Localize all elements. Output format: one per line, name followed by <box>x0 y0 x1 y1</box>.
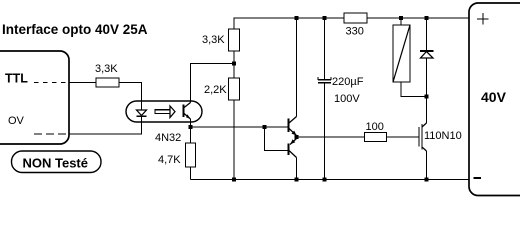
node load drain junction <box>425 95 429 99</box>
svg-text:330: 330 <box>346 26 364 38</box>
wire C1 top <box>324 18 326 80</box>
node diode top rail junction <box>425 16 429 20</box>
wire R3 to ground rail <box>233 100 235 180</box>
minus terminal <box>474 177 482 179</box>
node divider junction <box>232 62 236 66</box>
wire top rail <box>234 18 469 29</box>
capacitor C1 220uF <box>318 76 364 105</box>
svg-text:4,7K: 4,7K <box>158 154 181 166</box>
wire Q1 collector to top rail <box>296 18 298 117</box>
transistor Q2 PNP driver <box>289 139 297 158</box>
wire C1 bottom to ground rail <box>324 83 326 180</box>
TTL input source box <box>0 51 69 144</box>
node C1 top rail junction <box>323 16 327 20</box>
node Q3 source ground junction <box>425 178 429 182</box>
pill NON Teste <box>12 151 102 173</box>
svg-text:3,3K: 3,3K <box>202 34 225 46</box>
resistor R3 2,2K <box>204 78 240 100</box>
node driver base branch junction <box>263 125 267 129</box>
node Q1 collector rail junction <box>295 16 299 20</box>
svg-text:2,2K: 2,2K <box>204 84 227 96</box>
node R3 ground junction <box>232 178 236 182</box>
svg-text:40V: 40V <box>481 89 507 105</box>
light arrow inside optocoupler <box>155 106 175 118</box>
optocoupler U1 4N32 body <box>126 101 202 122</box>
wire R1 to LED anode <box>119 83 142 111</box>
wire R2 to R3 <box>233 51 235 78</box>
resistor R6 100 gate <box>365 121 387 142</box>
wire LED cathode to OV <box>69 116 142 134</box>
load L1 <box>393 25 410 82</box>
load L1 diagonal <box>393 25 410 82</box>
wire opto emitter down to R4 <box>190 119 192 143</box>
wire load top <box>400 18 402 25</box>
wire bottom rail <box>191 179 470 181</box>
node C1 ground junction <box>323 178 327 182</box>
node driver output junction <box>295 135 299 139</box>
svg-text:4N32: 4N32 <box>155 132 181 144</box>
node load top rail junction <box>399 16 403 20</box>
phototransistor of optocoupler <box>184 103 191 120</box>
svg-text:100: 100 <box>366 121 384 133</box>
battery box 40V <box>469 3 520 196</box>
diode D1 flyback <box>420 51 434 58</box>
wire emitter node to driver bases <box>191 126 289 128</box>
node opto emitter junction <box>189 125 193 129</box>
wire base branch to Q2 <box>265 127 289 151</box>
plus terminal <box>477 13 489 25</box>
svg-text:OV: OV <box>8 115 25 127</box>
svg-text:100V: 100V <box>334 93 360 105</box>
resistor R1 3,3K input <box>95 63 119 87</box>
wire load bottom to drain node <box>401 82 427 97</box>
wire TTL box to R1 <box>69 82 96 84</box>
wire TTL dashed <box>34 82 69 84</box>
svg-text:Interface opto 40V 25A: Interface opto 40V 25A <box>2 22 148 37</box>
wire OV dashed <box>34 133 69 135</box>
wire Q2 collector to ground rail <box>296 158 298 180</box>
wire diode branch <box>426 18 428 97</box>
wire R6 to gate <box>387 136 419 138</box>
transistor Q1 NPN driver <box>289 117 297 136</box>
resistor R4 4,7K <box>158 143 196 167</box>
svg-text:TTL: TTL <box>5 72 28 86</box>
svg-text:3,3K: 3,3K <box>95 63 118 75</box>
node Q2 ground junction <box>295 178 299 182</box>
transistor Q3 MOSFET 110N10 <box>419 97 462 180</box>
wire driver output to gate resistor <box>297 136 365 138</box>
resistor R5 330 <box>344 13 367 38</box>
wire opto collector to divider node <box>191 64 235 103</box>
svg-text:220µF: 220µF <box>332 76 364 88</box>
LED of optocoupler <box>137 110 147 116</box>
svg-text:NON Testé: NON Testé <box>23 156 89 171</box>
wire R4 to ground rail <box>190 167 192 180</box>
resistor R2 3,3K divider <box>202 29 240 51</box>
svg-text:110N10: 110N10 <box>424 130 462 142</box>
